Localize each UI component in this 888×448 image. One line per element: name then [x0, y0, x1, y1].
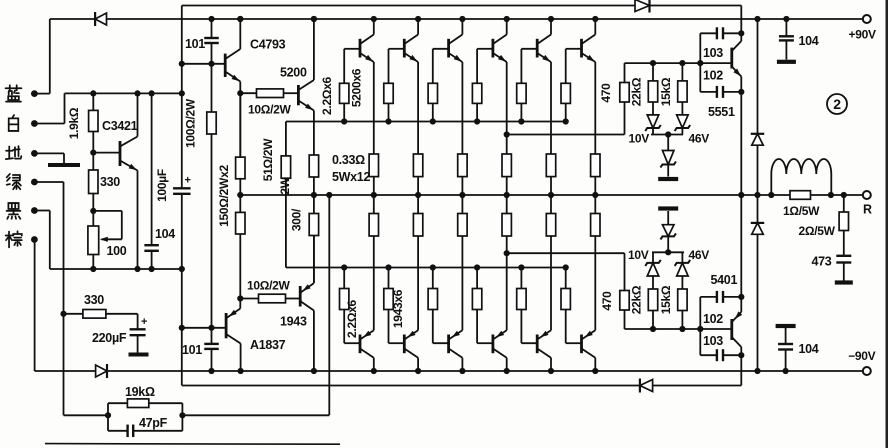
svg-text:1943x6: 1943x6 [391, 289, 405, 328]
svg-text:10V: 10V [629, 132, 650, 146]
node base bus Q11 [518, 264, 524, 270]
svg-text:300/: 300/ [290, 208, 304, 231]
wire VAS loop left edge upper [181, 6, 183, 189]
svg-text:A1837: A1837 [250, 338, 286, 352]
wire C4793 base line [182, 63, 225, 65]
terminal dot green (lv) [31, 179, 38, 186]
node rail Q6 collector [592, 16, 598, 22]
termination bar top zener [658, 177, 678, 181]
resistor 2.2Ohm base Q1 [344, 48, 360, 50]
node bottom rail 1943 collector [311, 368, 317, 374]
svg-text:5401: 5401 [711, 273, 738, 287]
svg-text:102: 102 [703, 312, 723, 326]
wire ground terminal [34, 152, 64, 154]
svg-text:22kΩ: 22kΩ [630, 285, 644, 314]
transistor A1837 [225, 313, 228, 338]
svg-text:470: 470 [599, 83, 613, 103]
node inductor left [768, 192, 774, 198]
node base line caps [697, 60, 703, 66]
svg-text:1943: 1943 [280, 315, 307, 329]
node mid bus 1500 column [237, 192, 243, 198]
node input at 104 cap [149, 90, 155, 96]
transistor 1943 output Q11 [536, 335, 539, 354]
zener 46V top [667, 135, 669, 151]
svg-text:102: 102 [703, 69, 723, 83]
svg-text:19kΩ: 19kΩ [125, 385, 155, 399]
transistor 5200 output Q6 [580, 39, 583, 58]
svg-text:10Ω/2W: 10Ω/2W [248, 103, 291, 117]
transistor 1943 output Q12 [580, 335, 583, 354]
capacitor 102 top [700, 91, 717, 93]
svg-text:51Ω/2W: 51Ω/2W [261, 138, 275, 181]
node base bus Q8 [385, 264, 391, 270]
transistor 5200 output Q5 [536, 39, 539, 58]
resistor 0.33Ohm emitter Q4 [502, 154, 511, 177]
diode clamp lower [752, 223, 764, 234]
svg-text:103: 103 [703, 334, 723, 348]
transistor 5200 output Q2 [403, 39, 406, 58]
node base line 22k bottom [650, 326, 656, 332]
label lv (green) chinese char [7, 174, 21, 189]
svg-text:46V: 46V [689, 248, 710, 262]
resistor 0.33Ohm emitter Q1 [369, 154, 378, 177]
resistor 22kOhm bottom [652, 311, 654, 330]
svg-text:101: 101 [185, 37, 205, 51]
diode clamp upper [752, 134, 764, 145]
svg-text:2.2Ωx6: 2.2Ωx6 [345, 299, 359, 337]
resistor 0.33Ohm emitter Q9 [458, 214, 467, 237]
svg-text:10V: 10V [628, 248, 649, 262]
resistor 2.2Ohm base Q4 [477, 48, 493, 50]
svg-text:47pF: 47pF [139, 416, 168, 430]
resistor 0.33Ohm emitter Q6 [591, 154, 600, 177]
resistor 10Ohm/2W upper [240, 92, 256, 94]
node 5551 collector [738, 30, 744, 36]
resistor 15kOhm bottom [681, 311, 683, 330]
node 5551 emitter [738, 89, 744, 95]
node base line 15k [679, 60, 685, 66]
wire 5401 base line [625, 328, 732, 330]
resistor 10Ohm/2W lower [240, 298, 258, 300]
potentiometer 100 [92, 211, 94, 226]
node base bus Q3 [430, 118, 436, 124]
resistor 2.2Ohm base Q11 [521, 342, 537, 344]
capacitor 220uF [137, 314, 139, 330]
wire VAS right edge upper [740, 6, 742, 34]
node base bus Q4 [474, 118, 480, 124]
label lan (blue) chinese char [6, 85, 22, 101]
svg-text:101: 101 [182, 343, 202, 357]
zener 10V top [652, 102, 654, 115]
node driver upper 10ohm tap [237, 90, 243, 96]
node base bus Q7 [341, 264, 347, 270]
transistor 1943 output Q9 [447, 335, 450, 354]
svg-text:104: 104 [155, 227, 175, 241]
node rail C4793 collector [237, 16, 243, 22]
node 100ohm bottom at A1837 base line [208, 325, 214, 331]
svg-text:15kΩ: 15kΩ [659, 285, 673, 314]
transistor 1943 driver [299, 286, 302, 307]
node mid bus Q5 [548, 192, 554, 198]
wire PNP output base bus [286, 267, 566, 269]
wire VAS loop top edge [182, 5, 742, 7]
node rail Q2 collector [415, 16, 421, 22]
svg-text:2Ω/5W: 2Ω/5W [799, 224, 836, 238]
label zong (brown) chinese char [6, 231, 22, 247]
resistor 470 bottom [624, 310, 626, 329]
transistor 5200 driver [297, 85, 300, 105]
resistor 0.33Ohm emitter Q11 [546, 214, 555, 237]
svg-text:2.2Ωx6: 2.2Ωx6 [320, 76, 334, 114]
resistor 0.33Ohm emitter Q8 [413, 214, 422, 237]
node base line caps bottom [697, 326, 703, 332]
resistor 330 lower [64, 313, 83, 315]
resistor 2.2Ohm base Q2 [389, 48, 405, 50]
node left bus 104 [149, 266, 155, 272]
svg-text:5200x6: 5200x6 [350, 68, 364, 107]
resistor 0.33Ohm emitter Q10 [502, 214, 511, 237]
transistor 1943 output Q8 [403, 335, 406, 354]
wire black terminal to left bus [34, 210, 49, 212]
wire +90V rail [50, 18, 863, 20]
termination bar bottom zener [658, 206, 678, 210]
svg-text:10Ω/2W: 10Ω/2W [247, 279, 290, 293]
wire bias tap line bottom [507, 252, 625, 254]
svg-text:1.9kΩ: 1.9kΩ [67, 107, 81, 139]
transistor C4793 [224, 54, 227, 77]
transistor 5200 output Q3 [447, 39, 450, 58]
resistor 0.33Ohm emitter Q2 [413, 154, 422, 177]
terminal dot white (bai) [31, 120, 38, 127]
svg-text:104: 104 [799, 34, 819, 48]
resistor 2Ohm/5W [843, 195, 845, 212]
node input at 1.9k [90, 90, 96, 96]
node base line 15k bottom [679, 326, 685, 332]
resistor 0.33Ohm emitter Q5 [546, 154, 555, 177]
label di (ground) chinese char [6, 146, 22, 159]
svg-text:46V: 46V [689, 132, 710, 146]
node mid bus 300 column [311, 192, 317, 198]
node 46V zener top [665, 131, 671, 137]
svg-text:100: 100 [107, 244, 127, 258]
diode D2 on top edge [635, 0, 650, 12]
svg-text:104: 104 [799, 342, 819, 356]
node mid bus Q2 [415, 192, 421, 198]
resistor 150Ohm/2Wx2 lower [236, 212, 245, 234]
node pot top [90, 208, 96, 214]
transistor C3421 [119, 141, 122, 166]
terminal dot brown (zong) [31, 236, 38, 243]
node mid bus Q4 [504, 192, 510, 198]
node on left edge at left bus [179, 266, 185, 272]
ground bar 473 [835, 280, 853, 284]
node mid bus Q3 [459, 192, 465, 198]
node bottom rail 104 [783, 368, 789, 374]
wire zener junction top [651, 134, 683, 136]
node rail diode column [754, 16, 760, 22]
wire output mid bus [240, 194, 863, 196]
capacitor 101 lower [211, 328, 213, 344]
wire feedback column [328, 195, 330, 415]
ground bar 220uF [129, 353, 149, 357]
node feedback left [105, 412, 111, 418]
node mid bus diode column [754, 192, 760, 198]
svg-text:5200: 5200 [280, 66, 307, 80]
node feedback right [179, 412, 185, 418]
resistor 2.2Ohm base Q10 [477, 342, 493, 344]
page marker circled 2 [827, 94, 847, 114]
resistor 2.2Ohm base Q6 [566, 48, 582, 50]
zener 10V bottom [652, 276, 654, 289]
wire VAS loop bottom edge [182, 385, 742, 387]
node driver lower 10ohm tap [237, 295, 243, 301]
capacitor 104 +90V [785, 19, 787, 36]
resistor 1Ohm/5W [790, 191, 811, 200]
transistor 1943 output Q7 [359, 335, 362, 354]
wire 5551 emitter to mid bus [740, 92, 742, 297]
scan border right edge [886, 0, 888, 448]
node mid bus Q6 [592, 192, 598, 198]
terminal dot ground (di) [31, 150, 38, 157]
transistor 5200 output Q1 [359, 39, 362, 58]
node base bus Q2 [385, 118, 391, 124]
node 46V zener bottom [665, 249, 671, 255]
node mid bus feedback [326, 192, 332, 198]
svg-text:+: + [184, 175, 190, 187]
resistor 2.2Ohm base Q3 [433, 48, 449, 50]
node mid bus VAS column [738, 192, 744, 198]
capacitor 104 input [151, 93, 153, 245]
wire white terminal to input line [34, 123, 64, 125]
svg-text:0.33Ω: 0.33Ω [332, 153, 365, 167]
wire brown terminal vertical [34, 240, 36, 372]
zener bottom right [681, 276, 683, 289]
svg-text:C3421: C3421 [102, 119, 138, 133]
transistor 5551 [730, 48, 733, 69]
resistor 2.2Ohm base Q12 [566, 342, 582, 344]
resistor 100Ohm/2W [211, 64, 213, 112]
label bai (white) chinese char [9, 115, 19, 131]
node left bus C3421 emitter [134, 266, 140, 272]
svg-text:150Ω/2Wx2: 150Ω/2Wx2 [217, 165, 231, 227]
node rail 5200 collector [311, 16, 317, 22]
node rail 101 [208, 16, 214, 22]
node bias tap top [504, 131, 510, 137]
diode D3 on -90V rail [96, 365, 107, 377]
node 101 base line [208, 61, 214, 67]
resistor 15kOhm top [681, 63, 683, 81]
node input at C3421 collector [134, 90, 140, 96]
wire blue terminal riser [49, 19, 51, 94]
wire VAS loop left edge lower [181, 194, 183, 386]
resistor 2.2Ohm base Q9 [433, 342, 449, 344]
node left bus pot [90, 266, 96, 272]
svg-text:100Ω/2W: 100Ω/2W [184, 98, 198, 148]
resistor 0.33Ohm emitter Q3 [458, 154, 467, 177]
node base bus Q6 [563, 118, 569, 124]
svg-text:+90V: +90V [849, 28, 876, 42]
resistor 300/2W lower [309, 214, 318, 236]
svg-text:220µF: 220µF [92, 331, 127, 345]
transistor 5200 output Q4 [491, 39, 494, 58]
svg-text:1Ω/5W: 1Ω/5W [783, 204, 820, 218]
svg-text:+: + [141, 316, 147, 328]
wire bias tap line top [507, 134, 625, 136]
svg-text:473: 473 [812, 255, 832, 269]
node 1.9k bottom [90, 150, 96, 156]
node bottom rail Q12 collector [592, 368, 598, 374]
svg-text:−90V: −90V [848, 349, 875, 363]
wire C4793 emitter [239, 82, 241, 158]
node rail output columns [237, 16, 243, 22]
node rail Q3 collector [459, 16, 465, 22]
svg-text:470: 470 [600, 291, 614, 311]
node rail 104 [783, 16, 789, 22]
terminal +90V [863, 15, 871, 23]
svg-text:15kΩ: 15kΩ [659, 77, 673, 106]
terminal dot black (hei) [31, 207, 38, 214]
resistor 2.2Ohm base Q8 [389, 342, 405, 344]
resistor 2.2Ohm base Q7 [344, 342, 360, 344]
terminal -90V [863, 367, 871, 375]
wire A1837 base line [182, 327, 226, 329]
ground symbol bar [48, 163, 80, 167]
svg-text:330: 330 [100, 175, 120, 189]
resistor 0.33Ohm emitter Q12 [591, 214, 600, 237]
node 2ohm tap [841, 192, 847, 198]
node base bus Q1 [341, 118, 347, 124]
wire feedback line left [64, 414, 109, 416]
resistor 300/2W upper [313, 111, 315, 156]
node bottom rail Q9 collector [459, 368, 465, 374]
node bottom rail Q11 collector [548, 368, 554, 374]
pot wiper arrow [102, 238, 122, 240]
svg-text:22kΩ: 22kΩ [630, 77, 644, 106]
diode D1 on +90V rail near input [95, 13, 106, 25]
node bottom rail diode column [754, 368, 760, 374]
node bottom rail 101 [208, 368, 214, 374]
svg-text:5551: 5551 [708, 105, 735, 119]
terminal R output [863, 191, 871, 199]
node 5401 collector [738, 352, 744, 358]
wire green terminal vertical [34, 181, 63, 183]
inductor L1 [770, 174, 772, 195]
svg-text:R: R [863, 203, 872, 217]
resistor 0.33Ohm emitter Q7 [369, 214, 378, 237]
capacitor 103 bottom [700, 354, 717, 356]
wire NPN output base bus [286, 121, 566, 123]
capacitor 104 -90V [776, 324, 796, 328]
resistor 22kOhm top [652, 63, 654, 81]
zener 46V bottom [667, 236, 669, 252]
svg-text:100µF: 100µF [155, 169, 169, 202]
wire -90V rail [35, 370, 863, 372]
svg-text:103: 103 [703, 46, 723, 60]
zener top right [681, 102, 683, 115]
wire C3421 base [93, 152, 120, 154]
node on left edge at A1837 base [179, 325, 185, 331]
resistor 150Ohm/2Wx2 upper [239, 93, 241, 157]
node bottom rail A1837 collector [238, 368, 244, 374]
capacitor 102 bottom [700, 296, 717, 298]
resistor 2.2Ohm base Q5 [521, 48, 537, 50]
node bias tap bottom [504, 250, 510, 256]
node base bus Q5 [518, 118, 524, 124]
resistor 19kOhm [107, 403, 109, 415]
node rail Q4 collector [504, 16, 510, 22]
node rail Q5 collector [548, 16, 554, 22]
wire left emitter bus [50, 268, 182, 270]
scan table edge line bottom [45, 443, 340, 446]
svg-text:330: 330 [84, 293, 104, 307]
capacitor 47pF [107, 415, 109, 431]
node bottom rail Q10 collector [504, 368, 510, 374]
wire 5551 base line [625, 62, 732, 64]
wire 103/102 left vertical [699, 33, 701, 92]
capacitor 103 top [700, 32, 717, 34]
node bottom rail Q8 collector [415, 368, 421, 374]
svg-text:C4793: C4793 [250, 38, 286, 52]
resistor 330 upper [92, 153, 94, 170]
wire feedback line [182, 414, 329, 416]
node 5401 emitter [738, 294, 744, 300]
node on left edge at input line [179, 90, 185, 96]
wire input line [65, 92, 182, 94]
resistor 51Ohm/2W [285, 122, 287, 156]
node base bus Q12 [563, 264, 569, 270]
capacitor 473 [836, 255, 851, 257]
node inductor right [828, 192, 834, 198]
svg-text:2: 2 [833, 96, 841, 112]
node bottom rail Q7 collector [371, 368, 377, 374]
terminal dot blue (lan) [31, 90, 38, 97]
svg-text:5Wx12: 5Wx12 [332, 170, 370, 184]
label hei (black) chinese char [7, 203, 21, 219]
node on left edge at C4793 base [179, 61, 185, 67]
node mid bus Q1 [371, 192, 377, 198]
capacitor 100uF bootstrap [173, 187, 191, 189]
wire VAS right edge lower [740, 355, 742, 385]
resistor 470 top [624, 63, 626, 82]
wire clamp diode column [757, 19, 759, 371]
wire zener junction bottom [652, 251, 684, 253]
diode D4 on bottom edge [640, 380, 653, 392]
transistor 1943 output Q10 [491, 335, 494, 354]
node base line 22k [650, 60, 656, 66]
transistor 5401 [730, 319, 733, 340]
node rail Q1 collector [371, 16, 377, 22]
node base bus Q9 [430, 264, 436, 270]
node green column at 330 resistor [60, 311, 66, 317]
capacitor 101 upper [211, 19, 213, 38]
resistor 1.9kOhm [92, 93, 94, 110]
wire 102/103 left vertical bottom [699, 297, 701, 355]
node base bus Q10 [474, 264, 480, 270]
